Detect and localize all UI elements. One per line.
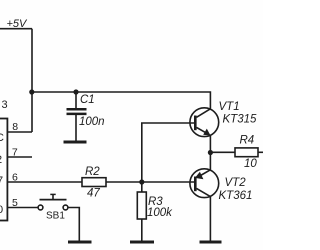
wire VT1 base branch [142, 123, 195, 182]
resistor R3 [137, 192, 173, 219]
svg-text:R4: R4 [240, 135, 255, 147]
pin 3 label (top, cut off) [2, 99, 8, 111]
wire R4 to edge [258, 151, 263, 153]
wire +5V vertical rail [31, 29, 33, 132]
pin label fragment 7 [0, 175, 3, 187]
svg-text:7: 7 [0, 175, 3, 187]
svg-text:100n: 100n [79, 116, 105, 128]
svg-text:VT2: VT2 [225, 177, 247, 189]
svg-text:R2: R2 [85, 166, 100, 178]
pin 5 [12, 197, 18, 209]
svg-text:C: C [0, 132, 4, 144]
capacitor C1 [67, 94, 105, 128]
resistor R4 [235, 135, 258, 171]
wire C1 top lead [75, 92, 77, 108]
ground below C1 [64, 141, 87, 144]
ground below SB1 [68, 241, 92, 244]
ground below VT2 [200, 241, 222, 244]
transistor VT2 KT361 (PNP) [190, 169, 252, 202]
pin label fragment 2 [0, 154, 2, 166]
svg-text:2: 2 [0, 154, 2, 166]
wire R3 bottom lead [141, 219, 143, 241]
node emitter junction [208, 150, 213, 155]
resistor R2 [82, 166, 106, 200]
svg-text:KT315: KT315 [223, 114, 257, 126]
svg-text:10: 10 [244, 158, 257, 170]
IC DD1 box [0, 119, 7, 221]
node C1 junction [73, 89, 78, 94]
wire VT2 collector to ground [209, 197, 211, 241]
svg-text:0: 0 [0, 204, 3, 216]
wire pin 5 to SB1 [8, 207, 38, 209]
wire C1 bottom lead [75, 115, 77, 141]
transistor VT1 KT315 (NPN) [190, 101, 257, 137]
wire R3 top lead [141, 182, 143, 192]
wire node to VT2 emitter [209, 153, 211, 170]
svg-text:KT361: KT361 [219, 190, 253, 202]
+5V supply label [7, 18, 29, 30]
wire VT1 emitter to node [209, 136, 211, 153]
pin label fragment C [0, 132, 4, 144]
wire SB1 to ground [68, 208, 79, 242]
pin 8 [12, 121, 18, 133]
wire pin 8 to +5V rail [8, 131, 32, 133]
svg-text:SB1: SB1 [46, 211, 65, 222]
pin 7 [12, 146, 18, 158]
wire node to R4 [210, 151, 235, 153]
wire +5V horizontal rail to VT1 collector [32, 92, 211, 109]
wire R2 to bases node [106, 181, 194, 183]
svg-text:VT1: VT1 [219, 101, 240, 113]
ground below R3 [130, 241, 154, 244]
wire pin 6 to R2 [8, 181, 82, 183]
svg-text:C1: C1 [80, 94, 95, 106]
wire pin 7 stub [8, 156, 32, 158]
pin label fragment 0 [0, 204, 3, 216]
wire +5V top feed [0, 28, 32, 30]
node base junction [139, 179, 144, 184]
svg-text:3: 3 [2, 99, 8, 111]
svg-text:47: 47 [87, 188, 100, 200]
pushbutton SB1 [38, 194, 68, 221]
pin 6 [12, 171, 18, 183]
svg-text:100k: 100k [147, 207, 173, 219]
node supply junction [29, 89, 34, 94]
